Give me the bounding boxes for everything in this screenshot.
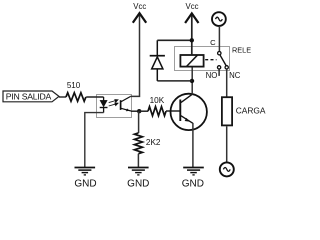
wire diode bottom to J2: [157, 80, 192, 82]
svg-text:2K2: 2K2: [146, 138, 161, 147]
svg-text:GND: GND: [127, 179, 149, 190]
wire node down to 2K2: [138, 111, 140, 133]
svg-text:NC: NC: [229, 71, 241, 80]
svg-text:CARGA: CARGA: [236, 105, 266, 115]
node junction J2 collector-diode-coil: [190, 79, 194, 83]
relay dashed actuator link: [205, 59, 216, 61]
wire node to 10K: [139, 110, 148, 112]
wire phototransistor collector to Vcc1: [131, 14, 140, 96]
node junction J1: [137, 109, 141, 113]
optocoupler U1 box: [97, 95, 132, 118]
ground GND3: [182, 168, 204, 190]
power Vcc2: [185, 2, 198, 55]
wire tag to resistor: [59, 96, 66, 98]
wire NC to load: [226, 69, 228, 97]
diode D1: [150, 40, 165, 81]
relay contact NO: [217, 66, 220, 69]
relay contact NC: [225, 66, 228, 69]
relay coil: [180, 55, 203, 67]
wire diode top to J3: [157, 39, 192, 41]
wire 10K to transistor base: [166, 110, 180, 112]
power Vcc1: [133, 2, 147, 23]
wire 2K2 to ground: [137, 154, 139, 167]
node junction J3: [190, 38, 194, 42]
load CARGA: [222, 97, 266, 125]
ac source AC2: [220, 162, 234, 176]
optocoupler LED: [100, 97, 108, 113]
wire AC1 to C contact: [218, 26, 220, 51]
svg-text:GND: GND: [74, 179, 96, 190]
resistor 510: [66, 81, 86, 101]
svg-text:PIN SALIDA: PIN SALIDA: [6, 92, 52, 102]
svg-text:GND: GND: [182, 179, 204, 190]
svg-text:C: C: [210, 38, 216, 47]
wire load to AC2: [226, 126, 228, 162]
svg-text:Vcc: Vcc: [186, 2, 199, 11]
wire LED cathode to ground: [85, 113, 104, 167]
node PIN SALIDA tag: [3, 91, 59, 102]
svg-text:NO: NO: [206, 71, 218, 80]
wire NO stub: [218, 69, 220, 76]
svg-text:510: 510: [67, 81, 81, 90]
relay contact C: [218, 52, 221, 55]
ground GND1: [74, 168, 96, 190]
svg-text:10K: 10K: [150, 96, 165, 105]
wire emitter down to ground: [192, 123, 194, 167]
relay lever: [220, 55, 226, 66]
ac source AC1: [212, 12, 226, 26]
wire phototransistor emitter to node: [131, 110, 139, 112]
svg-text:Vcc: Vcc: [133, 2, 146, 11]
optocoupler phototransistor: [121, 96, 131, 111]
resistor 10K: [148, 96, 166, 116]
resistor 2K2: [134, 133, 161, 154]
ground GND2: [127, 168, 149, 190]
relay K1 box: [175, 47, 230, 71]
wire resistor to optocoupler LED: [86, 96, 103, 98]
svg-text:RELE: RELE: [232, 45, 251, 54]
optocoupler light arrows: [109, 100, 118, 106]
wire collector up to relay coil: [191, 67, 193, 95]
transistor Q1: [171, 94, 207, 130]
